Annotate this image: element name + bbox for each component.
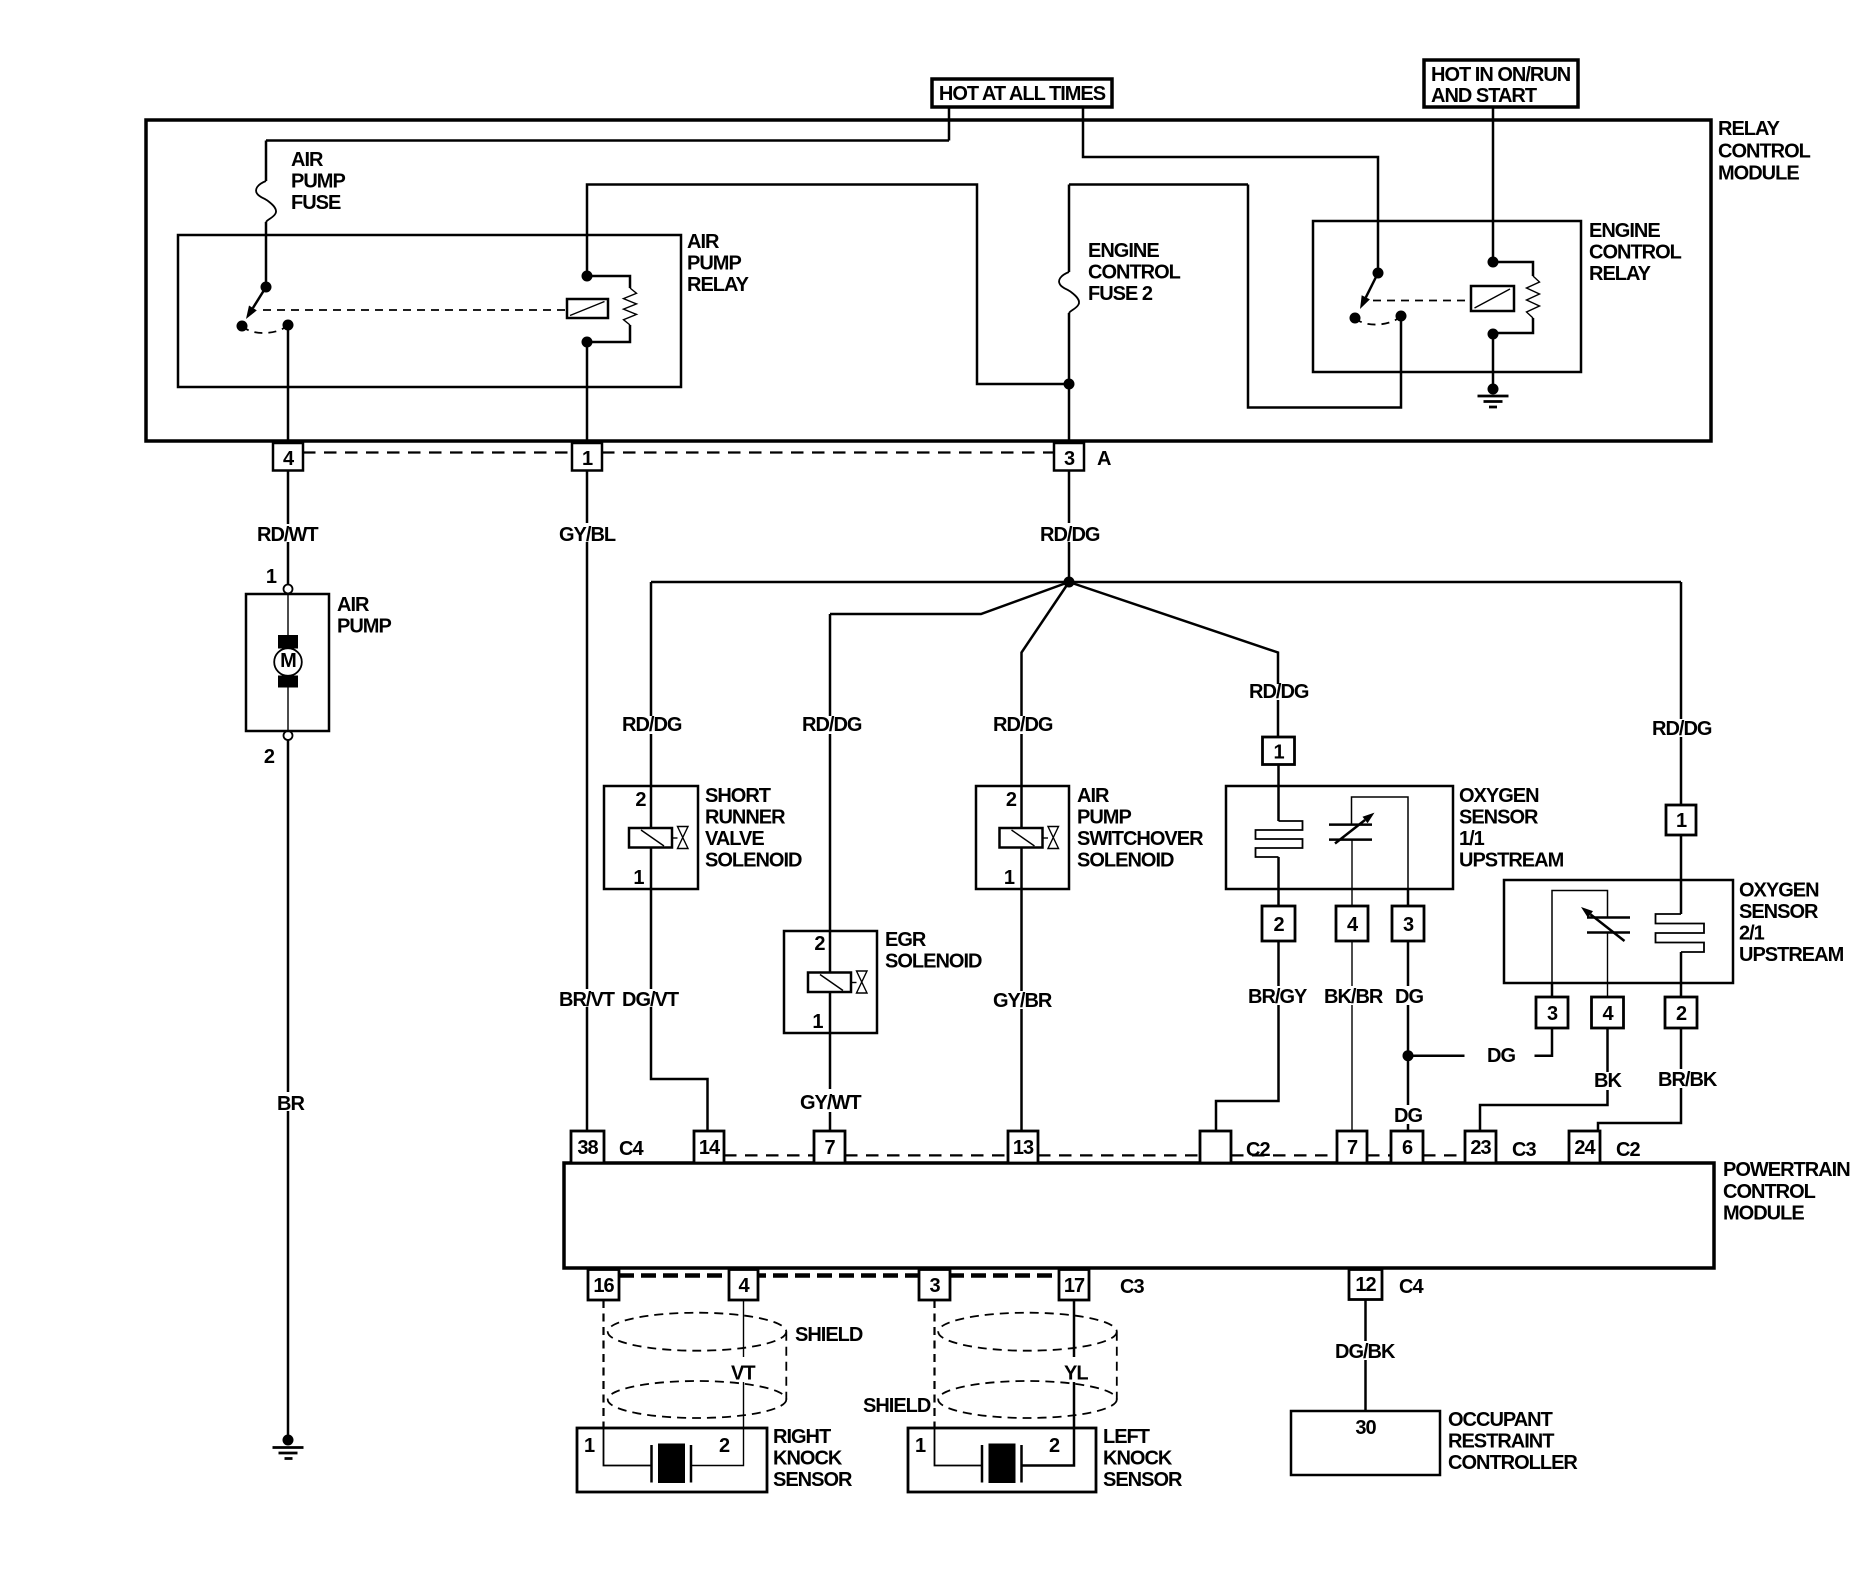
label SHIELD (right) (795, 1324, 863, 1346)
svg-text:7: 7 (824, 1137, 835, 1159)
label RD/DG (switchover branch) (993, 714, 1053, 736)
PCM pin 24 connector (1569, 1131, 1600, 1163)
junction DG splice (1403, 1050, 1414, 1061)
svg-text:PUMP: PUMP (1077, 807, 1131, 829)
left knock sensor pin 2 label (1049, 1435, 1060, 1457)
oxygen sensor 2/1 heater element (1656, 914, 1705, 952)
svg-text:2: 2 (635, 789, 646, 811)
svg-text:AIR: AIR (291, 149, 324, 171)
svg-text:HOT IN ON/RUN: HOT IN ON/RUN (1431, 64, 1571, 86)
svg-text:SENSOR: SENSOR (1459, 807, 1539, 829)
label AIR PUMP FUSE (291, 149, 345, 214)
wire fuse rail to relay switch contact (1248, 185, 1401, 408)
right knock sensor pin 2 label (719, 1435, 730, 1457)
svg-text:MODULE: MODULE (1718, 163, 1799, 185)
wire fuse 2 to junction (1068, 313, 1071, 384)
svg-text:HOT AT ALL TIMES: HOT AT ALL TIMES (939, 83, 1106, 105)
oxygen sensor 1/1 heater element (1256, 821, 1303, 857)
wire junction to pin 3 (1068, 384, 1071, 443)
label ENGINE CONTROL FUSE 2 (1088, 240, 1181, 305)
engine control relay parallel resistor (1493, 262, 1540, 333)
label RD/DG (oxygen sensor 2/1 branch) (1652, 718, 1712, 740)
dashed connector line (PCM top row) (724, 1154, 1465, 1156)
svg-text:30: 30 (1355, 1417, 1376, 1439)
wire node to EGR solenoid (830, 582, 1069, 931)
svg-text:1: 1 (266, 566, 277, 588)
svg-text:6: 6 (1402, 1137, 1413, 1159)
label YL (1064, 1363, 1088, 1385)
svg-text:RD/DG: RD/DG (993, 714, 1053, 736)
svg-text:CONTROL: CONTROL (1589, 242, 1682, 264)
oxygen sensor 1/1 pin 3 connector (1392, 906, 1424, 941)
svg-text:2: 2 (1273, 914, 1284, 936)
label RD/DG (short runner branch) (622, 714, 682, 736)
wire heater to pin 2 (1277, 857, 1280, 906)
svg-text:38: 38 (577, 1137, 598, 1159)
relay ENGINE CONTROL RELAY box (1313, 221, 1581, 372)
engine control relay switch movable arm (1360, 273, 1378, 309)
svg-text:2: 2 (1049, 1435, 1060, 1457)
svg-text:3: 3 (929, 1275, 940, 1297)
label BR/GY (1248, 986, 1308, 1008)
label RELAY CONTROL MODULE (1718, 118, 1811, 185)
svg-text:RD/DG: RD/DG (1652, 718, 1712, 740)
label GY/BL (559, 524, 616, 546)
junction fuse 2 output node (1064, 379, 1075, 390)
label connector A (1097, 448, 1111, 470)
label POWERTRAIN CONTROL MODULE (1723, 1159, 1850, 1225)
switchover solenoid coil and valve (1000, 786, 1059, 889)
svg-text:EGR: EGR (885, 929, 927, 951)
EGR solenoid pin 2 label (814, 933, 825, 955)
svg-text:BK: BK (1594, 1070, 1622, 1092)
svg-text:BR: BR (277, 1093, 305, 1115)
dashed connector line (relay control module) (303, 451, 1054, 453)
svg-text:RELAY: RELAY (687, 274, 750, 296)
label DG (above pin 6) (1394, 1105, 1422, 1127)
sensor RIGHT KNOCK SENSOR box (577, 1428, 767, 1492)
label AIR PUMP (337, 594, 391, 638)
svg-text:RD/DG: RD/DG (802, 714, 862, 736)
svg-text:C2: C2 (1246, 1139, 1270, 1161)
EGR solenoid coil and valve (808, 931, 867, 1034)
wire switchover solenoid to PCM pin 13 (GY/BR) (1020, 889, 1023, 1131)
wire DG junction to PCM pin 6 (1407, 1056, 1410, 1131)
fuse ENGINE CONTROL FUSE 2 (1059, 272, 1079, 313)
engine control relay switch contact dashed arc (1355, 316, 1401, 325)
svg-text:1: 1 (582, 448, 593, 470)
wire sensor 1/1 pin 3 down (DG) (1407, 941, 1410, 1056)
label OXYGEN SENSOR 2/1 UPSTREAM (1739, 880, 1844, 967)
ground air pump (273, 1435, 304, 1459)
svg-text:2/1: 2/1 (1739, 923, 1765, 945)
PCM pin 3 connector (919, 1270, 950, 1301)
svg-text:CONTROL: CONTROL (1723, 1181, 1816, 1203)
svg-text:1: 1 (633, 867, 644, 889)
right knock sensor piezo element (604, 1428, 692, 1483)
label C3 (pin 17) (1120, 1276, 1144, 1298)
svg-text:2: 2 (719, 1435, 730, 1457)
svg-text:RD/DG: RD/DG (1249, 681, 1309, 703)
svg-text:SWITCHOVER: SWITCHOVER (1077, 828, 1204, 850)
svg-text:C4: C4 (619, 1138, 644, 1160)
wire pin 3 down (RD/DG) (1068, 471, 1071, 583)
svg-text:SHIELD: SHIELD (795, 1324, 863, 1346)
svg-text:SOLENOID: SOLENOID (1077, 850, 1174, 872)
right knock sensor pin 1 label (584, 1435, 595, 1457)
sensor OXYGEN SENSOR 1/1 UPSTREAM box (1226, 786, 1453, 889)
oxygen sensor 2/1 pin 4 connector (1592, 997, 1624, 1028)
wire pin 1 into sensor 2/1 (1680, 835, 1683, 914)
svg-text:DG/VT: DG/VT (622, 989, 679, 1011)
label RIGHT KNOCK SENSOR (773, 1426, 853, 1491)
label DG (sensor 1/1 pin 3) (1395, 986, 1423, 1008)
svg-text:1: 1 (812, 1011, 823, 1033)
air pump pin 1 terminal (266, 566, 293, 594)
svg-text:RESTRAINT: RESTRAINT (1448, 1431, 1554, 1453)
wire PCM pin 17 to knock sensor (YL) (1022, 1300, 1075, 1466)
svg-text:M: M (280, 650, 296, 672)
label RD/DG (pin 3 wire) (1040, 524, 1100, 546)
label C3 (pin 23) (1512, 1139, 1536, 1161)
svg-text:14: 14 (699, 1137, 721, 1159)
svg-text:SENSOR: SENSOR (1103, 1469, 1183, 1491)
svg-text:VT: VT (731, 1363, 755, 1385)
sensor OXYGEN SENSOR 2/1 UPSTREAM box (1504, 880, 1733, 983)
switchover solenoid pin 2 label (1006, 789, 1017, 811)
wire fuse to relay switch (265, 222, 268, 287)
svg-text:DG/BK: DG/BK (1335, 1341, 1396, 1363)
short runner valve solenoid coil and valve (629, 786, 688, 889)
label C4 (pin 38) (619, 1138, 644, 1160)
wire engine control relay coil to ground (1492, 334, 1495, 389)
label RD/DG (EGR branch) (802, 714, 862, 736)
label RD/WT (257, 524, 318, 546)
svg-text:DG: DG (1394, 1105, 1422, 1127)
wire pin 3 loop to sense element top (sensor 2/1) (1552, 891, 1608, 998)
wire node to oxygen sensor 1/1 (1069, 582, 1278, 737)
oxygen sensor 2/1 pin 3 connector (1536, 997, 1568, 1028)
svg-text:2: 2 (1676, 1003, 1687, 1025)
label OXYGEN SENSOR 1/1 UPSTREAM (1459, 785, 1564, 872)
left knock sensor pin 1 label (915, 1435, 926, 1457)
oxygen sensor 1/1 pin 2 connector (1262, 906, 1295, 941)
svg-text:SOLENOID: SOLENOID (885, 951, 982, 973)
svg-text:GY/BL: GY/BL (559, 524, 616, 546)
wire pin 3 loop to sense element top (1352, 797, 1409, 906)
PCM pin 14 connector (694, 1131, 724, 1163)
label GY/WT (800, 1092, 861, 1114)
connector pin 3 (relay control module) (1054, 443, 1084, 471)
air pump relay actuation dashed link (263, 309, 565, 311)
label BK (1594, 1070, 1622, 1092)
label VT (731, 1363, 755, 1385)
air pump relay switch movable arm (246, 287, 266, 319)
power source banner HOT IN ON/RUN AND START (1424, 60, 1578, 107)
switchover solenoid pin 1 label (1004, 867, 1015, 889)
svg-text:2: 2 (814, 933, 825, 955)
svg-text:KNOCK: KNOCK (1103, 1448, 1173, 1470)
label DG/BK (1335, 1341, 1396, 1363)
svg-text:1: 1 (1273, 742, 1284, 764)
svg-text:17: 17 (1064, 1275, 1085, 1297)
air pump motor symbol (274, 594, 302, 731)
engine control relay actuation dashed link (1373, 300, 1471, 302)
PCM pin 13 connector (1008, 1131, 1038, 1163)
wire hot-in-on/run to engine control relay coil (1492, 107, 1495, 262)
svg-text:FUSE 2: FUSE 2 (1088, 283, 1153, 305)
label LEFT KNOCK SENSOR (1103, 1426, 1183, 1491)
svg-text:POWERTRAIN: POWERTRAIN (1723, 1159, 1850, 1181)
oxygen sensor 1/1 pin 1 connector (1263, 737, 1295, 765)
label SHIELD (left) (863, 1395, 931, 1417)
dashed connector line (PCM bottom row heavy) (619, 1273, 1059, 1278)
svg-text:SHIELD: SHIELD (863, 1395, 931, 1417)
svg-text:2: 2 (264, 746, 275, 768)
ground engine control relay (1478, 384, 1509, 408)
svg-text:FUSE: FUSE (291, 192, 341, 214)
module box POWERTRAIN CONTROL MODULE (564, 1163, 1714, 1268)
PCM pin 23 connector (1465, 1131, 1496, 1163)
air pump relay coil bottom node (582, 337, 593, 348)
svg-text:C3: C3 (1512, 1139, 1536, 1161)
label RD/DG (oxygen sensor 1/1 branch) (1249, 681, 1309, 703)
label ENGINE CONTROL RELAY (1589, 220, 1682, 285)
svg-text:CONTROL: CONTROL (1718, 140, 1811, 162)
svg-text:7: 7 (1347, 1137, 1358, 1159)
svg-text:1: 1 (915, 1435, 926, 1457)
EGR solenoid pin 1 label (812, 1011, 823, 1033)
svg-text:MODULE: MODULE (1723, 1203, 1804, 1225)
wire shield drain pin 16 (dashed) (602, 1300, 604, 1428)
svg-text:2: 2 (1006, 789, 1017, 811)
svg-text:C3: C3 (1120, 1276, 1144, 1298)
air pump relay parallel resistor (587, 276, 637, 342)
solenoid SHORT RUNNER VALVE SOLENOID box (604, 786, 698, 889)
svg-text:RELAY: RELAY (1718, 118, 1781, 140)
shield cylinder right knock sensor (608, 1313, 787, 1418)
solenoid AIR PUMP SWITCHOVER SOLENOID box (976, 786, 1069, 889)
wire hot-at-all-times to engine control relay switch (1083, 107, 1378, 273)
svg-text:24: 24 (1574, 1137, 1596, 1159)
left knock sensor piezo element (935, 1428, 1022, 1483)
svg-text:RIGHT: RIGHT (773, 1426, 831, 1448)
svg-text:DG: DG (1487, 1045, 1515, 1067)
svg-text:PUMP: PUMP (687, 253, 741, 275)
svg-text:KNOCK: KNOCK (773, 1448, 843, 1470)
label BR/VT (559, 989, 615, 1011)
wire short runner solenoid to PCM pin 14 (DG/VT) (651, 889, 708, 1131)
module box OCCUPANT RESTRAINT CONTROLLER (1291, 1411, 1440, 1475)
engine control relay switch contact right (1396, 311, 1407, 322)
node RD/DG splice (1064, 577, 1075, 588)
wire bus to oxygen sensor 2/1 (1680, 582, 1683, 806)
svg-text:SENSOR: SENSOR (773, 1469, 853, 1491)
engine control relay coil bottom node (1488, 329, 1499, 340)
sensor LEFT KNOCK SENSOR box (908, 1428, 1096, 1492)
svg-text:GY/BR: GY/BR (993, 990, 1053, 1012)
label GY/BR (993, 990, 1053, 1012)
svg-text:DG: DG (1395, 986, 1423, 1008)
svg-text:UPSTREAM: UPSTREAM (1459, 850, 1564, 872)
svg-text:BK/BR: BK/BR (1324, 986, 1384, 1008)
air pump pin 2 terminal (264, 731, 293, 768)
label C2 (blank pin) (1246, 1139, 1270, 1161)
air pump relay coil (567, 299, 608, 318)
label DG/VT (622, 989, 679, 1011)
wire heater to pin 2 (sensor 2/1) (1680, 952, 1683, 997)
label BK/BR (1324, 986, 1384, 1008)
engine control relay coil top node (1488, 257, 1499, 268)
svg-text:YL: YL (1064, 1363, 1088, 1385)
wire sense element to pin 4 (sensor 2/1 thin) (1607, 933, 1609, 998)
svg-text:C2: C2 (1616, 1139, 1640, 1161)
label DG (branch) (1487, 1045, 1515, 1067)
svg-text:BR/GY: BR/GY (1248, 986, 1308, 1008)
wire air pump relay coil to engine fuse output (587, 185, 1069, 385)
svg-text:1: 1 (1676, 810, 1687, 832)
engine control relay switch common contact (1373, 268, 1384, 279)
air pump relay switch contact right (283, 320, 294, 331)
svg-text:OCCUPANT: OCCUPANT (1448, 1409, 1553, 1431)
svg-text:BR/BK: BR/BK (1658, 1069, 1718, 1091)
svg-text:SOLENOID: SOLENOID (705, 850, 802, 872)
shield cylinder left knock sensor (938, 1313, 1117, 1418)
oxygen sensor 2/1 pin 1 connector (1666, 805, 1696, 835)
wire air pump relay contact to pin 4 (287, 325, 290, 443)
svg-text:RD/DG: RD/DG (1040, 524, 1100, 546)
air pump relay switch common contact (261, 282, 272, 293)
svg-text:C4: C4 (1399, 1276, 1424, 1298)
PCM pin 16 connector (588, 1270, 619, 1301)
engine control relay coil (1471, 286, 1514, 311)
svg-text:OXYGEN: OXYGEN (1459, 785, 1539, 807)
PCM pin 12 connector (1349, 1270, 1382, 1300)
air pump relay switch contact left (237, 321, 248, 332)
svg-text:LEFT: LEFT (1103, 1426, 1150, 1448)
wire engine control fuse 2 rail (1069, 185, 1248, 273)
wire air pump to ground (BR) (287, 740, 290, 1440)
wire shield drain pin 3 (dashed) (933, 1300, 935, 1428)
wire PCM pin 4 to knock sensor (VT thin) (691, 1300, 744, 1466)
label BR/BK (1658, 1069, 1718, 1091)
svg-text:AIR: AIR (337, 594, 370, 616)
wire sensor 1/1 pin 2 to PCM C2 (BR/GY) (1216, 941, 1279, 1131)
svg-text:AND START: AND START (1431, 85, 1537, 107)
label C2 (pin 24) (1616, 1139, 1640, 1161)
svg-text:UPSTREAM: UPSTREAM (1739, 944, 1844, 966)
label C4 (pin 12) (1399, 1276, 1424, 1298)
wire air pump relay coil to pin 1 (586, 342, 589, 443)
solenoid EGR SOLENOID box (784, 931, 877, 1033)
svg-text:RELAY: RELAY (1589, 263, 1652, 285)
svg-text:3: 3 (1064, 448, 1075, 470)
PCM C2 connector (blank) (1200, 1131, 1231, 1163)
svg-text:SHORT: SHORT (705, 785, 771, 807)
svg-text:12: 12 (1355, 1274, 1376, 1296)
label SHORT RUNNER VALVE SOLENOID (705, 785, 802, 872)
svg-text:GY/WT: GY/WT (800, 1092, 861, 1114)
module box RELAY CONTROL MODULE (146, 120, 1711, 441)
wire PCM pin 12 to occupant restraint controller (DG/BK) (1364, 1300, 1367, 1412)
wire pin 4 to air pump (RD/WT) (287, 471, 290, 585)
label BR (277, 1093, 305, 1115)
short runner valve solenoid pin 1 label (633, 867, 644, 889)
svg-text:RD/DG: RD/DG (622, 714, 682, 736)
label EGR SOLENOID (885, 929, 982, 973)
wire pin 1 into sensor 1/1 (1277, 765, 1280, 822)
svg-text:CONTROLLER: CONTROLLER (1448, 1452, 1578, 1474)
svg-text:1: 1 (584, 1435, 595, 1457)
connector pin 1 (relay control module) (572, 443, 602, 471)
svg-text:SENSOR: SENSOR (1739, 901, 1819, 923)
svg-text:PUMP: PUMP (291, 171, 345, 193)
svg-text:1/1: 1/1 (1459, 828, 1485, 850)
PCM pin 7 connector (EGR) (814, 1131, 845, 1163)
oxygen sensor 1/1 pin 4 connector (1336, 906, 1368, 941)
svg-text:3: 3 (1547, 1003, 1558, 1025)
wire DG branch to sensor 2/1 pin 3 (1408, 1028, 1552, 1056)
wire bus to short runner valve solenoid (650, 582, 653, 786)
svg-text:CONTROL: CONTROL (1088, 262, 1181, 284)
PCM pin 38 connector (571, 1131, 604, 1163)
relay AIR PUMP RELAY box (178, 235, 681, 387)
air pump relay coil top node (582, 271, 593, 282)
short runner valve solenoid pin 2 label (635, 789, 646, 811)
PCM pin 4 connector (729, 1270, 758, 1301)
svg-text:RD/WT: RD/WT (257, 524, 318, 546)
engine control relay switch contact left (1350, 313, 1361, 324)
svg-text:AIR: AIR (1077, 785, 1110, 807)
wire sensor 2/1 pin 4 to PCM pin 23 (BK) (1480, 1028, 1608, 1131)
air pump relay switch contact dashed arc (242, 325, 288, 333)
label AIR PUMP SWITCHOVER SOLENOID (1077, 785, 1204, 872)
wire EGR solenoid to PCM pin 7 (GY/WT) (829, 1033, 832, 1131)
motor AIR PUMP box (246, 594, 329, 731)
wire sensor 1/1 pin 4 to PCM pin 7 (BK/BR thin) (1351, 941, 1353, 1131)
svg-text:3: 3 (1403, 914, 1414, 936)
oxygen sensor 2/1 pin 2 connector (1665, 997, 1697, 1028)
svg-text:A: A (1097, 448, 1111, 470)
wire sensor 2/1 pin 2 to PCM pin 24 (BR/BK) (1598, 1028, 1681, 1131)
oxygen sensor 1/1 sense element (variable) (1329, 813, 1375, 844)
svg-text:13: 13 (1013, 1137, 1034, 1159)
wire node to air pump switchover solenoid (1022, 582, 1070, 786)
svg-text:PUMP: PUMP (337, 616, 391, 638)
fuse air pump fuse (256, 181, 276, 222)
label OCCUPANT RESTRAINT CONTROLLER (1448, 1409, 1578, 1474)
oxygen sensor 2/1 sense element (variable) (1581, 907, 1630, 941)
wire sense element to pin 4 (thin) (1351, 840, 1353, 906)
svg-text:1: 1 (1004, 867, 1015, 889)
svg-text:16: 16 (593, 1275, 614, 1297)
power source banner HOT AT ALL TIMES (932, 79, 1112, 107)
wire pin 1 to PCM pin 38 (GY/BL, BR/VT) (586, 471, 589, 1132)
svg-text:VALVE: VALVE (705, 828, 764, 850)
label AIR PUMP RELAY (687, 231, 750, 296)
svg-text:23: 23 (1470, 1137, 1491, 1159)
svg-text:RUNNER: RUNNER (705, 807, 786, 829)
svg-text:ENGINE: ENGINE (1589, 220, 1660, 242)
PCM pin 7 connector (oxygen sensor) (1337, 1131, 1367, 1163)
wire RD/DG bus (651, 581, 1681, 584)
PCM pin 6 connector (1391, 1131, 1423, 1163)
svg-text:ENGINE: ENGINE (1088, 240, 1159, 262)
svg-text:OXYGEN: OXYGEN (1739, 880, 1819, 902)
connector pin 4 (relay control module) (273, 443, 303, 471)
svg-text:AIR: AIR (687, 231, 720, 253)
wire hot-at-all-times to air pump fuse (266, 107, 949, 181)
